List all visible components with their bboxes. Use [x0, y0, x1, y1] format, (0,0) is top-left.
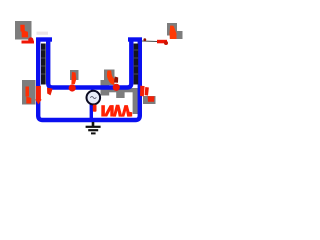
label box TR lower (gray): [172, 31, 183, 39]
label box left mid (gray): [22, 80, 36, 105]
ac source G (circle): [87, 91, 101, 105]
wire: right top bar: [128, 37, 142, 41]
resistor R1 (red bar TL): [22, 41, 35, 44]
label SRR text (red glyphs): [101, 105, 132, 117]
wire: inner loop (left inner leg + mid bus + right inner leg): [48, 38, 131, 88]
dark red smear above left coil: [37, 32, 49, 35]
label box TR upper (gray): [167, 23, 177, 36]
node dot B: [113, 84, 120, 91]
label box TL (gray): [15, 21, 32, 40]
current arrow at left bus corner (red): [47, 88, 53, 96]
current arrows right leg (red): [140, 86, 145, 97]
transformer core left (dark interior): [41, 44, 46, 85]
node dot right top bar end: [143, 38, 146, 41]
current arrow i3 (red, mid-right): [107, 71, 115, 86]
wire: source bottom stub: [90, 105, 93, 121]
current arrow on left leg (red): [36, 86, 41, 100]
sine mark inside source: [90, 96, 96, 98]
ground: [86, 122, 101, 133]
current arrow i2 (red, mid-left): [71, 72, 76, 84]
label glyph right leg (red, in box): [148, 96, 155, 102]
node dot TL: [28, 37, 33, 42]
node dot TR: [164, 41, 168, 45]
transformer core right (dark interior): [134, 44, 139, 85]
label box i2 (gray): [70, 70, 79, 80]
label halo right of source (gray patches): [101, 80, 110, 96]
current arrow below source (red): [93, 105, 97, 112]
label U glyph (red, left mid box): [26, 87, 30, 97]
wire: left top bar: [36, 37, 52, 41]
node dot A: [69, 84, 76, 91]
wire: outer loop (left leg + bottom bus + right leg): [38, 38, 140, 121]
label i1 glyph (red, in TL box): [20, 25, 25, 32]
label box right leg (gray): [143, 96, 156, 104]
label i4 glyph (red, in TR box): [170, 26, 177, 40]
resistor R2 (red bar TR): [157, 40, 167, 44]
label box i3 (gray): [104, 70, 115, 86]
wire: link right component (dark): [142, 40, 157, 43]
wire: source top stub: [91, 88, 94, 92]
